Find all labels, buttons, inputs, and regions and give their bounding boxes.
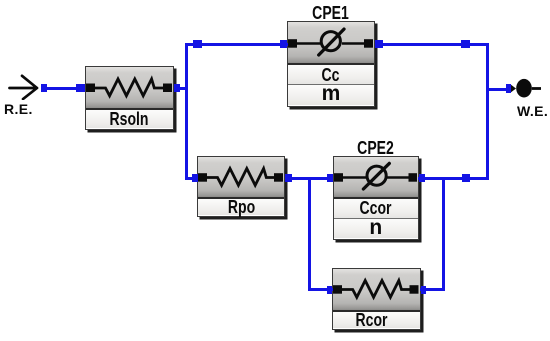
value label Rpo (198, 199, 284, 215)
wire: Rcor right drop (442, 177, 445, 292)
node: Rsoln right terminal (174, 84, 180, 92)
value label Cc (288, 65, 374, 85)
node: CPE2 right terminal (419, 174, 426, 182)
node: CPE2 left terminal (327, 174, 333, 182)
resistor Rpo (197, 156, 285, 217)
op: CPE2 title (333, 139, 420, 157)
wire: W.E. stub (486, 88, 508, 91)
wire: bottom rail to Rpo (185, 177, 198, 180)
wire: right vertical branch (486, 43, 489, 180)
wire: top rail right segment (375, 43, 490, 46)
value label Rcor (333, 312, 420, 328)
op: CPE1 title (287, 5, 375, 23)
value label m (288, 85, 374, 105)
wire: CPE2 to right vertical (418, 177, 486, 180)
resistor Rsoln (85, 66, 174, 130)
node: W.E. wire end (506, 84, 511, 93)
wire: R.E. to Rsoln (41, 87, 85, 90)
wire: top rail left segment (185, 43, 288, 46)
wire: Rpo to CPE2 (285, 177, 333, 180)
terminal W.E. (505, 75, 550, 103)
node: CPE1 left terminal (280, 40, 287, 48)
label W.E. (517, 103, 548, 119)
label R.E. (4, 101, 33, 117)
node: top-left bend junction (193, 40, 202, 48)
value label Rsoln (86, 110, 173, 128)
node: Rpo right terminal (285, 174, 292, 182)
terminal R.E. (0, 66, 50, 100)
wire: left vertical branch (185, 43, 188, 180)
wire: Rsoln to left vertical (174, 87, 187, 90)
capacitor CPE2 (333, 156, 420, 241)
node: bottom-right rail junction (462, 174, 471, 182)
node: CPE1 right terminal (375, 40, 383, 48)
value label Ccor (334, 199, 419, 219)
capacitor CPE1 (287, 21, 375, 107)
node: Rpo left terminal (192, 174, 199, 182)
node: Rsoln left terminal (76, 84, 85, 92)
node: Rcor left terminal (327, 286, 333, 294)
node: top-right junction (461, 40, 470, 48)
node: Rcor right terminal (421, 286, 426, 294)
wire: Rcor right horizontal (420, 288, 445, 291)
value label n (334, 219, 419, 238)
wire: Rcor left drop (308, 177, 311, 292)
node: R.E. wire start (41, 84, 47, 92)
resistor Rcor (332, 268, 421, 330)
wire: Rcor left horizontal (308, 288, 333, 291)
